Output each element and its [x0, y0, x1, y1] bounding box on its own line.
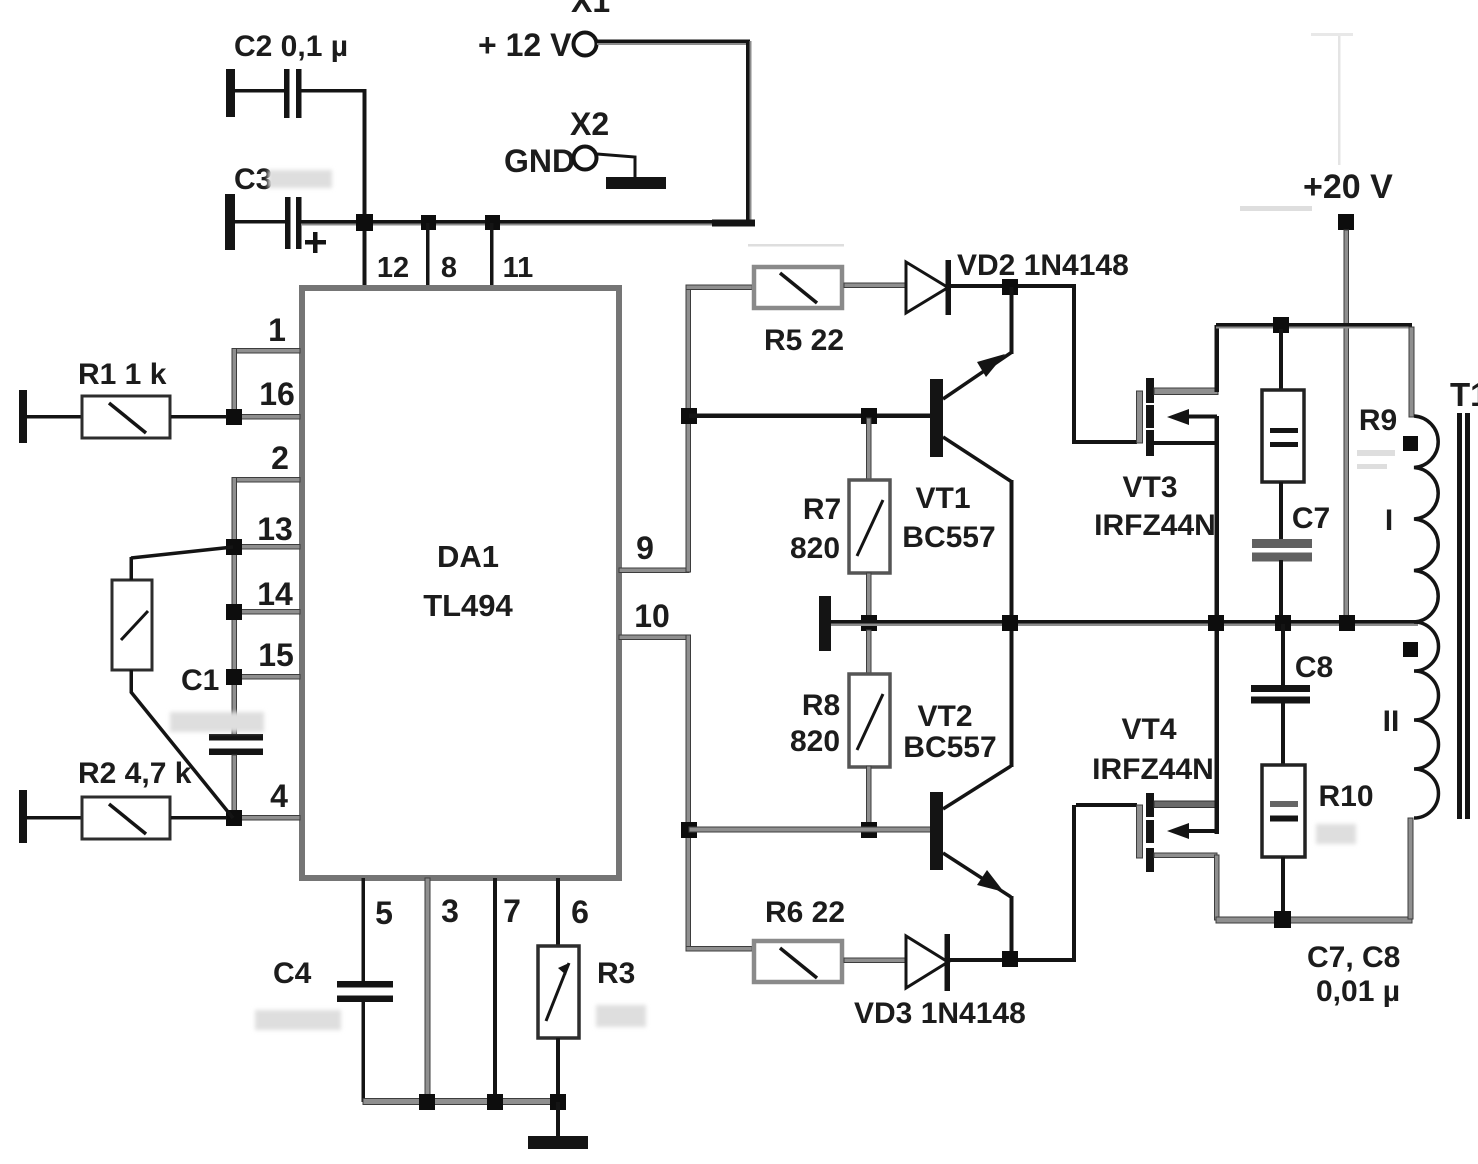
resistor R8 820: [790, 630, 890, 828]
svg-text:R6 22: R6 22: [765, 896, 845, 929]
svg-text:15: 15: [258, 637, 294, 673]
wire VD3 to node: [950, 958, 1002, 962]
node bus/pin7 junction: [487, 1094, 503, 1110]
node R7/rail junction: [861, 615, 877, 631]
potentiometer (trimmer): [112, 557, 152, 693]
svg-text:C4: C4: [273, 957, 312, 990]
node T1 winding I phase dot: [1403, 436, 1418, 451]
resistor R9: [1262, 329, 1397, 482]
svg-text:3: 3: [441, 893, 459, 929]
+12V rail wire: [301, 220, 750, 226]
capacitor C1: [170, 664, 264, 755]
svg-text:C7, C8: C7, C8: [1307, 941, 1400, 974]
wire pot bottom to pin4: [131, 692, 233, 818]
center output terminal: [819, 596, 831, 651]
wire VT2 base rail: [689, 827, 931, 832]
resistor R1: [19, 358, 227, 443]
pin 4 stub: [234, 816, 300, 821]
node pin13 junction: [226, 539, 242, 555]
svg-text:14: 14: [257, 576, 293, 612]
pin 6 riser wire: [556, 878, 560, 945]
svg-text:T1: T1: [1450, 376, 1478, 413]
resistor R6 22: [754, 896, 845, 982]
wire bottom ground bus: [363, 1099, 559, 1105]
svg-text:R7: R7: [803, 493, 841, 526]
node VT1/VT2 collector rail junction: [1002, 615, 1018, 631]
svg-text:8: 8: [441, 252, 457, 284]
capacitor C8: [1251, 624, 1333, 704]
faint erased mark top right: [1240, 206, 1312, 211]
pin 9 stub: [619, 568, 689, 573]
wire R5 to VD2: [844, 283, 906, 288]
connector X1: [478, 0, 610, 63]
C7,C8 value label: [1307, 941, 1400, 1008]
svg-text:R2 4,7 k: R2 4,7 k: [78, 757, 192, 790]
transistor VT2 BC557: [903, 700, 1011, 897]
junction pin 11 node: [485, 215, 500, 230]
pin 15 stub: [234, 675, 300, 680]
wire C2/C3 to pin 12 riser: [363, 89, 367, 286]
diode VD3 1N4148: [854, 934, 1026, 1030]
svg-text:I: I: [1385, 504, 1393, 537]
pin 11 riser wire: [490, 223, 494, 286]
svg-text:X1: X1: [571, 0, 610, 19]
svg-text:R1 1 k: R1 1 k: [78, 358, 167, 391]
svg-text:GND: GND: [504, 143, 575, 179]
op-amp/IC DA1 TL494: [302, 288, 619, 878]
svg-text:9: 9: [636, 530, 654, 566]
wire VT1 emitter riser: [1010, 287, 1014, 354]
connector X2: [504, 106, 609, 179]
node VD3/VT2 emitter junction: [1002, 951, 1018, 967]
node pin14 junction: [226, 604, 242, 620]
wire VT3 drain riser: [1215, 325, 1220, 392]
svg-text:VD2 1N4148: VD2 1N4148: [957, 249, 1129, 282]
pin 8 riser wire: [426, 223, 430, 286]
svg-text:TL494: TL494: [423, 588, 513, 623]
wire to ground: [556, 1102, 560, 1137]
node T1 winding II phase dot: [1403, 642, 1418, 657]
pin 14 stub: [234, 610, 300, 615]
node VD2/VT1 emitter junction: [1002, 279, 1018, 295]
resistor R10: [1262, 765, 1374, 857]
svg-text:4: 4: [270, 778, 288, 814]
svg-text:R5 22: R5 22: [764, 324, 844, 357]
wire top rail (VT3 drain to T1): [1216, 323, 1412, 329]
svg-text:IRFZ44N: IRFZ44N: [1094, 509, 1216, 542]
svg-text:2: 2: [271, 440, 289, 476]
pin 10 stub: [619, 635, 689, 640]
svg-text:0,01 µ: 0,01 µ: [1316, 975, 1400, 1008]
svg-text:12: 12: [377, 252, 409, 284]
transistor VT4 IRFZ44N: [1092, 713, 1218, 872]
pin 1 stub: [234, 349, 300, 354]
node R8/VT2 base rail junction: [861, 822, 877, 838]
wire VT4 drain riser: [1215, 624, 1220, 834]
transistor VT1 BC557: [689, 352, 1012, 554]
transistor VT3 IRFZ44N: [1094, 378, 1218, 542]
capacitor C2: [226, 30, 365, 118]
svg-text:6: 6: [571, 894, 589, 930]
pin 3 riser wire: [425, 878, 430, 1102]
svg-text:C3: C3: [234, 163, 272, 196]
node pin16/R1 junction: [226, 409, 242, 425]
wire pin 9 riser to R5: [686, 285, 691, 572]
wire left pin bus (2,13,14,15): [232, 478, 237, 735]
node bus/pin3 junction: [419, 1094, 435, 1110]
wire VT4 source riser: [1215, 855, 1220, 920]
resistor R5 22: [754, 267, 844, 357]
svg-text:R9: R9: [1359, 404, 1397, 437]
wire R9 to C7: [1279, 482, 1283, 540]
wire C1 to pin4 bus: [232, 755, 237, 820]
svg-text:7: 7: [503, 893, 521, 929]
+20V supply: [1303, 33, 1393, 622]
resistor R2: [19, 757, 227, 843]
diode VD2 1N4148: [906, 249, 1129, 315]
wire X2 to ground: [597, 154, 635, 178]
wire C7 to rail: [1279, 560, 1283, 622]
pin 7 riser wire: [493, 878, 497, 1102]
node pin10/VT2 base junction: [681, 822, 697, 838]
svg-text:VT2: VT2: [917, 700, 972, 733]
svg-text:BC557: BC557: [902, 521, 995, 554]
junction C3/C2 node: [356, 214, 373, 231]
resistor R3: [538, 946, 646, 1038]
svg-text:DA1: DA1: [437, 539, 499, 574]
svg-text:R8: R8: [802, 689, 840, 722]
svg-text:C8: C8: [1295, 651, 1333, 684]
pin 16 stub: [234, 415, 300, 420]
svg-text:1: 1: [268, 312, 286, 348]
svg-text:VD3 1N4148: VD3 1N4148: [854, 997, 1026, 1030]
wire T1 winding II to bottom rail: [1408, 818, 1413, 919]
svg-text:VT1: VT1: [915, 482, 970, 515]
wire bottom rail: [1216, 917, 1412, 923]
wire VD3 node to VT4 gate: [1018, 803, 1137, 962]
svg-text:IRFZ44N: IRFZ44N: [1092, 753, 1214, 786]
wire VT3 source riser: [1215, 416, 1220, 622]
svg-text:VT4: VT4: [1121, 713, 1176, 746]
wire pin 10 riser to R6: [686, 635, 691, 951]
junction pin 8 node: [421, 215, 436, 230]
wire VD2 node to VT3 gate: [1018, 284, 1137, 444]
node R7/VT1 base junction: [861, 408, 877, 424]
pin 13 stub: [234, 545, 300, 550]
node top rail/R9 junction: [1273, 317, 1289, 333]
wire center rail: [831, 620, 1418, 626]
svg-text:+ 12 V: + 12 V: [478, 27, 572, 63]
svg-text:+20 V: +20 V: [1303, 168, 1393, 206]
node R10/bottom rail junction: [1274, 911, 1291, 928]
wire thick corner at X1 riser: [712, 220, 755, 227]
svg-text:C2 0,1 µ: C2 0,1 µ: [234, 30, 348, 63]
transformer T1: [1383, 376, 1478, 819]
node pin15 junction: [226, 669, 242, 685]
svg-text:13: 13: [257, 511, 293, 547]
svg-text:10: 10: [634, 598, 670, 634]
svg-text:VT3: VT3: [1122, 471, 1177, 504]
svg-text:X2: X2: [570, 106, 609, 142]
wire VT2 emitter riser: [1010, 896, 1014, 960]
wire C8 to R10: [1281, 703, 1285, 765]
pin 2 stub: [234, 478, 300, 483]
svg-text:R10: R10: [1318, 780, 1373, 813]
wire pin1-pin16 bus: [232, 349, 237, 419]
capacitor C7: [1252, 502, 1330, 562]
wire C4 to bottom bus: [362, 1002, 366, 1102]
node bus/R3 junction: [550, 1094, 566, 1110]
svg-text:16: 16: [259, 376, 295, 412]
svg-text:11: 11: [503, 252, 534, 284]
svg-text:820: 820: [790, 532, 840, 565]
node pin4 junction: [226, 810, 242, 826]
svg-text:C1: C1: [181, 664, 219, 697]
ground (X2): [606, 177, 666, 189]
wire R3 to bottom bus: [556, 1038, 560, 1102]
wire R10 to bottom rail: [1281, 857, 1285, 919]
svg-text:820: 820: [790, 725, 840, 758]
svg-text:R3: R3: [597, 957, 635, 990]
wire R6 to VD3: [844, 958, 906, 963]
wire pot top to pin13: [131, 547, 233, 558]
wire VT1 collector riser: [1010, 480, 1014, 622]
svg-text:II: II: [1383, 705, 1400, 738]
node +20V/rail junction: [1339, 615, 1355, 631]
wire VT2 collector riser: [1010, 624, 1014, 767]
svg-text:C7: C7: [1292, 502, 1330, 535]
svg-text:BC557: BC557: [903, 731, 996, 764]
wire VD2 to node: [951, 284, 1004, 288]
resistor R7 820: [790, 418, 890, 616]
node C7/rail junction: [1275, 615, 1291, 631]
ground (main): [528, 1136, 588, 1149]
svg-text:5: 5: [375, 895, 393, 931]
node pin9/VT1 base junction: [681, 408, 697, 424]
node VT3/VT4 rail junction: [1208, 615, 1224, 631]
capacitor C4: [255, 957, 393, 1030]
wire X1 to rail: [597, 40, 752, 224]
pin 5 riser wire: [362, 878, 366, 982]
capacitor C3 (electrolytic): [225, 163, 332, 253]
wire top rail to T1 winding I: [1409, 327, 1414, 417]
